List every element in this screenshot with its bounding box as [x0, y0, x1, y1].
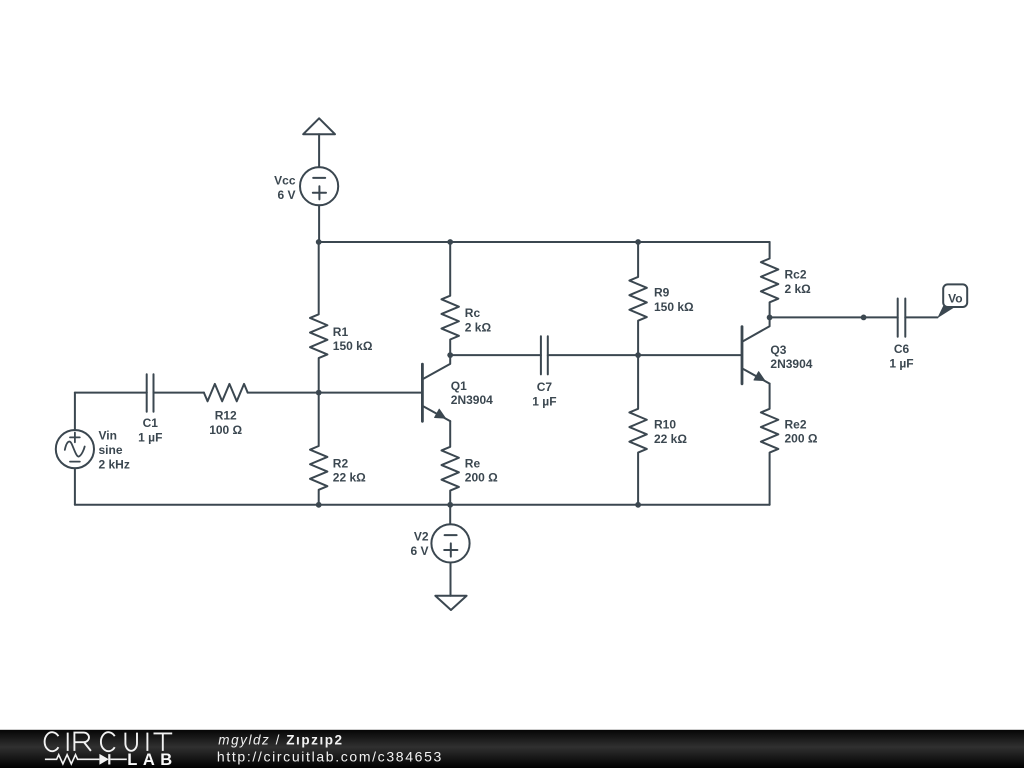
resistor R9: [629, 242, 646, 355]
junction R9 top: [635, 239, 641, 245]
wire Q3 collector to C6: [770, 316, 898, 318]
wire C6 to Vo flag: [905, 316, 937, 318]
svg-text:mgyldz / Zıpzıp2: mgyldz / Zıpzıp2: [218, 732, 343, 747]
capacitor C1: [147, 374, 154, 412]
resistor Re2: [761, 384, 778, 505]
resistor R1: [310, 242, 327, 393]
node base Q1 (R1/R2/R12): [316, 390, 322, 396]
logo resistor-diode squiggle: [45, 754, 127, 765]
svg-text:Vcc6 V: Vcc6 V: [274, 174, 296, 202]
wire Q1 collector to C7: [450, 354, 541, 356]
junction Vcc/top-rail/R1: [316, 239, 322, 245]
junction R2 bottom rail: [316, 502, 322, 508]
resistor Rc2: [761, 242, 778, 317]
voltage source V2: [431, 524, 469, 562]
wire Vin left vertical top: [74, 393, 76, 430]
resistor R12: [204, 384, 248, 401]
sine source Vin: [56, 430, 94, 468]
junction R10 bottom rail: [635, 502, 641, 508]
wire Vin top to C1: [75, 392, 147, 394]
resistor R2: [310, 393, 327, 505]
wire Vcc source to top rail: [318, 205, 320, 242]
junction Rc top: [447, 239, 453, 245]
output flag Vo: [937, 284, 967, 318]
capacitor C7: [541, 336, 548, 374]
wire bottom rail to V2: [449, 505, 451, 525]
resistor Rc: [442, 242, 459, 355]
svg-text:http://circuitlab.com/c384653: http://circuitlab.com/c384653: [217, 749, 443, 765]
node Q3 collector (Rc2/out): [767, 315, 773, 321]
node output wire: [861, 315, 867, 321]
voltage source Vcc: [300, 167, 338, 205]
wire Vcc flag to source: [318, 134, 320, 167]
resistor Re: [442, 421, 459, 505]
node Q1 collector (Rc/C7): [447, 352, 453, 358]
power flag Vcc arrow: [303, 118, 335, 134]
wire V2 to ground: [450, 563, 452, 596]
footer bar: [0, 730, 1024, 768]
wire top rail: [319, 241, 770, 243]
svg-text:V26 V: V26 V: [410, 530, 428, 558]
wire bottom rail: [75, 504, 770, 506]
svg-text:Vo: Vo: [948, 291, 962, 305]
resistor R10: [629, 355, 646, 505]
capacitor C6: [898, 299, 906, 337]
svg-text:LAB: LAB: [127, 751, 177, 768]
wire node to Q3 base: [638, 354, 741, 356]
wire Vin left vertical bottom: [74, 468, 76, 505]
wire R12 to base node: [248, 392, 319, 394]
node R9/R10/Q3 base: [635, 352, 641, 358]
wire base node to Q1 base: [319, 392, 421, 394]
transistor Q3: [742, 317, 770, 383]
transistor Q1: [422, 355, 450, 421]
wire C1 to R12: [154, 392, 204, 394]
ground: [435, 596, 466, 610]
logo CIRCUIT wordmark: [45, 732, 173, 751]
wire C7 to node: [548, 354, 638, 356]
junction bottom rail / V2: [447, 502, 453, 508]
